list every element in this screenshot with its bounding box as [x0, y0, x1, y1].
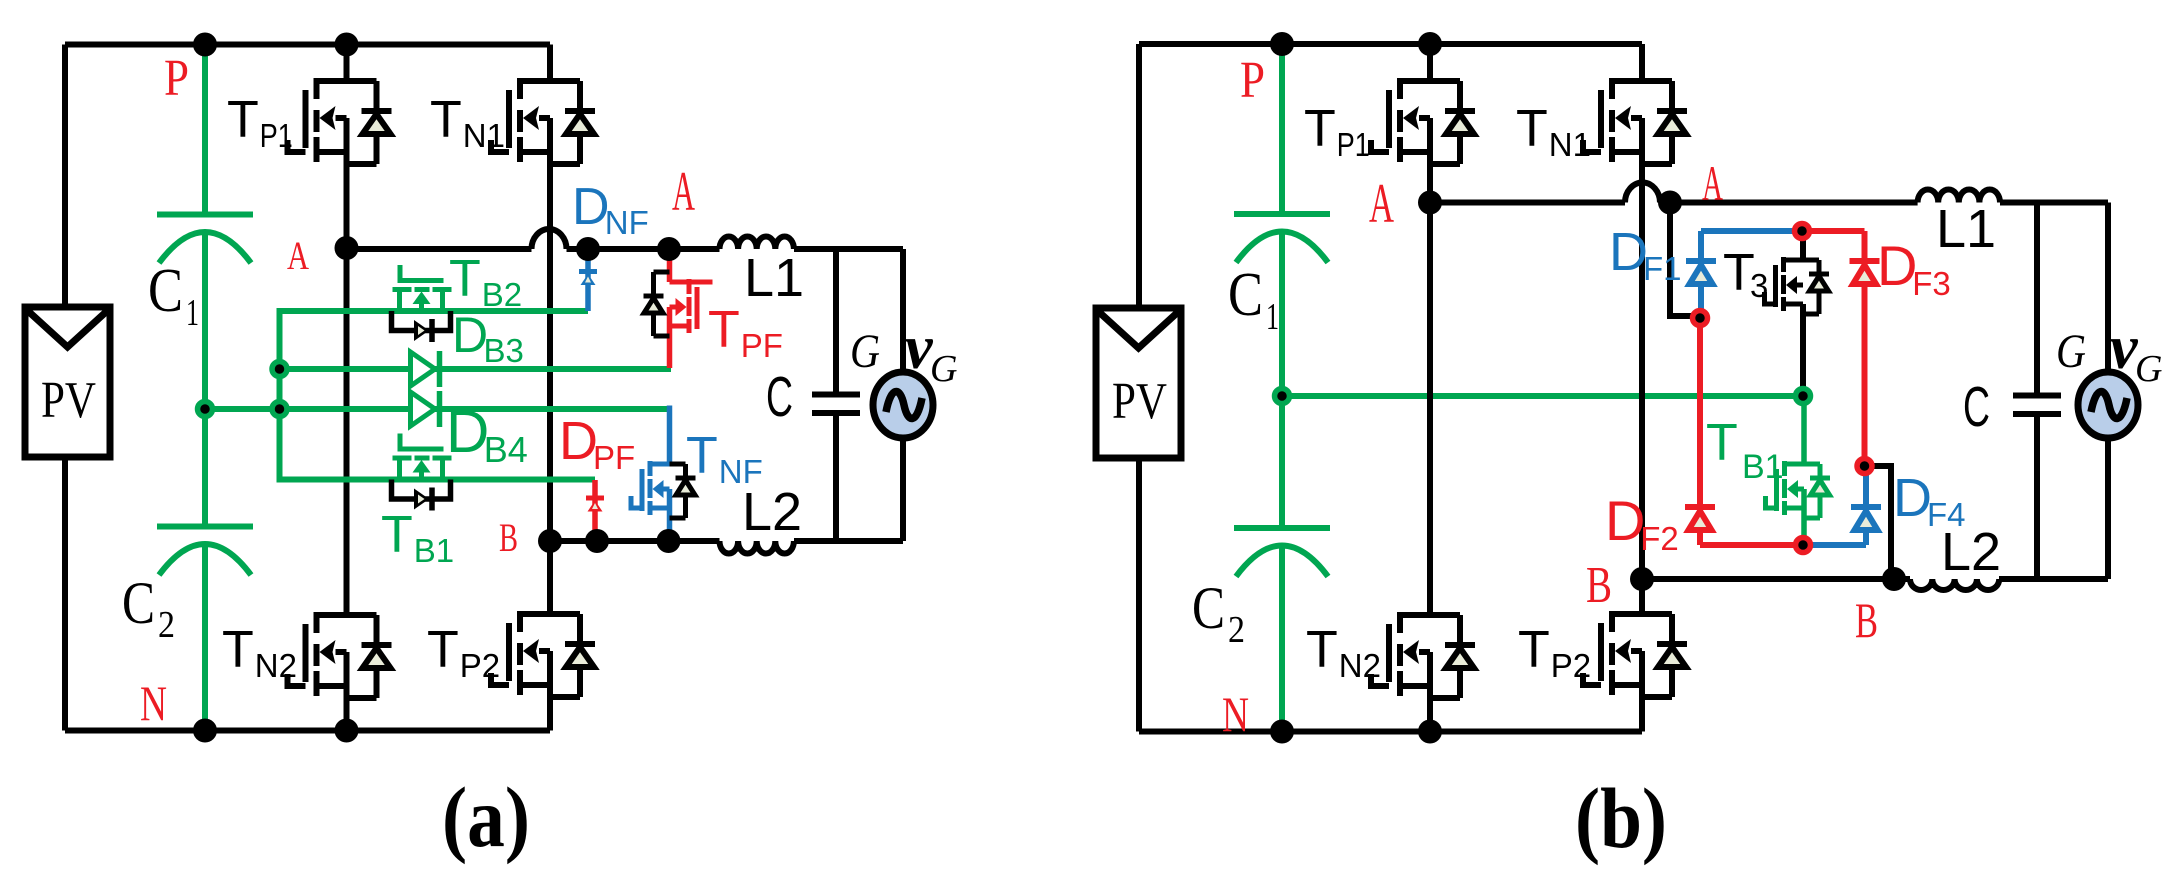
svg-text:A: A [672, 161, 695, 223]
svg-text:T: T [430, 91, 462, 149]
svg-text:C: C [1963, 375, 1990, 439]
svg-text:C: C [122, 570, 155, 636]
svg-text:C: C [1228, 261, 1263, 329]
svg-text:B1: B1 [1742, 448, 1784, 486]
svg-text:P: P [164, 50, 189, 107]
svg-text:G: G [930, 348, 957, 390]
svg-text:N1: N1 [1549, 126, 1591, 163]
svg-text:T: T [1304, 100, 1336, 158]
svg-text:P2: P2 [460, 647, 500, 684]
svg-text:B1: B1 [414, 532, 454, 569]
svg-text:T: T [427, 621, 459, 679]
svg-text:B: B [1855, 592, 1878, 648]
svg-text:B3: B3 [484, 332, 524, 369]
svg-text:L1: L1 [1936, 199, 1996, 259]
svg-text:P1: P1 [1337, 126, 1370, 163]
svg-text:N1: N1 [463, 117, 505, 154]
svg-text:A: A [1702, 155, 1723, 211]
svg-text:T: T [1306, 621, 1338, 679]
svg-text:C: C [766, 365, 793, 429]
svg-text:T: T [1516, 100, 1548, 158]
svg-text:N2: N2 [1339, 647, 1381, 684]
svg-text:(b): (b) [1575, 770, 1667, 866]
svg-text:C: C [1192, 575, 1225, 641]
svg-text:PV: PV [1112, 373, 1167, 430]
svg-text:B: B [499, 515, 518, 560]
svg-text:PF: PF [593, 439, 635, 476]
svg-text:1: 1 [186, 292, 199, 334]
svg-text:N2: N2 [255, 647, 297, 684]
svg-text:L2: L2 [1941, 522, 2001, 582]
svg-text:2: 2 [158, 604, 175, 646]
svg-text:L2: L2 [742, 482, 802, 542]
svg-text:T: T [449, 250, 481, 308]
svg-text:NF: NF [605, 204, 649, 241]
svg-text:F3: F3 [1912, 265, 1951, 302]
svg-text:P1: P1 [260, 117, 293, 154]
svg-text:1: 1 [1266, 296, 1279, 338]
svg-text:F1: F1 [1643, 250, 1682, 287]
svg-text:A: A [287, 233, 309, 278]
svg-text:P2: P2 [1551, 647, 1591, 684]
svg-text:3: 3 [1750, 267, 1768, 304]
svg-text:C: C [148, 257, 183, 325]
svg-text:T: T [381, 506, 413, 564]
svg-text:L1: L1 [744, 248, 804, 308]
svg-text:PV: PV [41, 372, 96, 429]
svg-text:G: G [2135, 348, 2162, 390]
svg-text:A: A [1369, 173, 1394, 235]
svg-text:F2: F2 [1640, 520, 1679, 557]
svg-text:G: G [2056, 325, 2086, 378]
svg-text:N: N [140, 675, 167, 731]
svg-text:B4: B4 [484, 429, 528, 470]
svg-text:T: T [1518, 621, 1550, 679]
svg-text:T: T [227, 91, 259, 149]
svg-text:T: T [222, 621, 254, 679]
svg-text:N: N [1222, 686, 1249, 742]
svg-text:T: T [686, 427, 718, 485]
svg-text:2: 2 [1228, 609, 1245, 651]
svg-text:P: P [1240, 52, 1265, 109]
svg-text:T: T [1706, 414, 1738, 472]
svg-text:(a): (a) [442, 769, 530, 865]
svg-text:B: B [1586, 557, 1612, 614]
svg-text:T: T [708, 301, 740, 359]
svg-text:PF: PF [741, 327, 783, 364]
svg-text:G: G [850, 325, 880, 378]
